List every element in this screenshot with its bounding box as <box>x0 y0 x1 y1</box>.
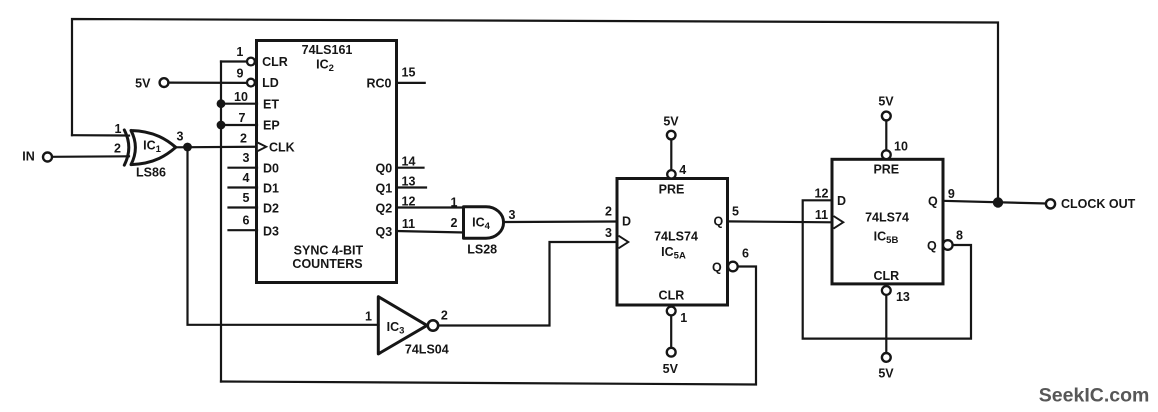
wire vertical bus CLR/ET/EP down to bottom feedback <box>220 62 222 382</box>
IC5B 74LS74 box <box>832 159 943 284</box>
svg-text:2: 2 <box>441 309 448 323</box>
node junction at XOR output <box>183 143 192 152</box>
wire CLR pin stub <box>221 60 247 62</box>
svg-text:1: 1 <box>451 196 458 210</box>
svg-text:D3: D3 <box>263 225 279 239</box>
clock triangle IC5A <box>619 236 629 249</box>
svg-text:74LS74: 74LS74 <box>865 210 909 224</box>
svg-text:1: 1 <box>680 311 687 325</box>
svg-text:1: 1 <box>365 310 372 324</box>
pin bubble LD IC2 <box>247 79 255 87</box>
svg-text:2: 2 <box>451 216 458 230</box>
wire Q2 to AND gate input 1 <box>397 206 464 208</box>
wire IC5B Q-bar feedback to D <box>803 200 971 338</box>
node IN terminal <box>43 153 52 162</box>
svg-text:10: 10 <box>234 90 248 104</box>
wire 5V to LD pin <box>169 81 247 84</box>
svg-text:7: 7 <box>239 111 246 125</box>
gate XOR IC1 body <box>131 131 176 165</box>
svg-text:SeekIC.com: SeekIC.com <box>1039 384 1150 406</box>
svg-text:PRE: PRE <box>873 162 899 176</box>
wire IC5A 5V to PRE <box>670 140 672 171</box>
svg-text:10: 10 <box>894 139 908 153</box>
svg-text:COUNTERS: COUNTERS <box>292 257 362 271</box>
node 5V terminal at LD <box>160 78 169 87</box>
svg-text:3: 3 <box>605 226 612 240</box>
svg-text:Q3: Q3 <box>376 225 393 239</box>
svg-text:CLR: CLR <box>659 289 685 303</box>
svg-text:74LS74: 74LS74 <box>654 229 698 243</box>
svg-text:PRE: PRE <box>659 183 685 197</box>
gate inverter IC3 bubble <box>428 320 438 330</box>
svg-text:12: 12 <box>402 195 416 209</box>
svg-text:Q1: Q1 <box>376 181 393 195</box>
svg-text:Q0: Q0 <box>376 161 393 175</box>
svg-text:SYNC 4-BIT: SYNC 4-BIT <box>294 244 364 258</box>
svg-text:LD: LD <box>262 76 279 90</box>
wire D1 stub <box>229 186 258 188</box>
svg-text:5: 5 <box>243 191 250 205</box>
pin bubble CLR IC5A <box>667 307 676 316</box>
gate AND IC4 body <box>464 207 504 239</box>
wire Q3 to AND gate input 2 <box>397 231 464 233</box>
node CLOCK OUT terminal <box>1046 199 1055 208</box>
svg-text:CLR: CLR <box>873 269 899 283</box>
wire XOR output junction down to inverter IC3 input <box>188 147 379 325</box>
svg-text:CLK: CLK <box>269 141 295 155</box>
IC2 74LS161 box <box>257 41 397 283</box>
wire IC5A Q to IC5B clock <box>728 220 833 223</box>
node 5V terminal IC5B bottom <box>882 353 891 362</box>
svg-text:2: 2 <box>605 205 612 219</box>
svg-text:Q2: Q2 <box>376 201 393 215</box>
pin bubble Q-bar IC5A <box>728 262 738 272</box>
wire RC0 pin 15 stub <box>397 82 425 84</box>
svg-text:74LS04: 74LS04 <box>405 343 449 357</box>
svg-text:3: 3 <box>509 208 516 222</box>
svg-text:1: 1 <box>236 45 243 59</box>
svg-text:6: 6 <box>243 214 250 228</box>
svg-text:CLOCK OUT: CLOCK OUT <box>1061 197 1136 211</box>
wire Q1 pin 13 stub <box>397 186 427 188</box>
wire IC5B 5V to PRE <box>885 120 887 150</box>
svg-text:D1: D1 <box>263 182 279 196</box>
node 5V terminal IC5A bottom <box>667 348 676 357</box>
wire top feedback from CLOCK OUT node to XOR input 1 <box>72 19 998 202</box>
clock triangle IC2 CLK <box>258 143 266 151</box>
pin bubble CLR IC2 <box>247 58 255 66</box>
svg-text:9: 9 <box>948 187 955 201</box>
gate inverter IC3 triangle <box>378 297 427 354</box>
svg-text:12: 12 <box>815 186 829 200</box>
wire XOR output to CLK of IC2 <box>175 146 257 149</box>
svg-text:Q: Q <box>927 239 937 253</box>
wire XOR input 1 horizontal <box>72 134 129 137</box>
wire D0 stub <box>229 167 258 169</box>
svg-text:CLR: CLR <box>262 55 288 69</box>
svg-text:5V: 5V <box>878 95 894 109</box>
pin bubble PRE IC5B <box>882 150 891 159</box>
svg-text:14: 14 <box>402 155 416 169</box>
svg-text:EP: EP <box>263 119 280 133</box>
pin bubble Q-bar IC5B <box>943 240 953 250</box>
wire IC5B CLR to 5V <box>885 295 887 353</box>
svg-text:74LS161: 74LS161 <box>302 43 353 57</box>
svg-text:1: 1 <box>115 122 122 136</box>
svg-text:5: 5 <box>732 205 739 219</box>
svg-text:15: 15 <box>402 66 416 80</box>
svg-text:5V: 5V <box>878 366 894 380</box>
pin bubble CLR IC5B <box>882 286 891 295</box>
wire bottom feedback from IC5A Q-bar to counter reset bus <box>221 267 756 385</box>
wire IC5B Q to CLOCK OUT <box>943 201 1046 204</box>
gate XOR IC1 input arc <box>124 130 129 165</box>
pin bubble PRE IC5A <box>667 170 675 178</box>
svg-text:ET: ET <box>263 98 279 112</box>
wire Q0 pin 14 stub <box>397 167 424 169</box>
wire D2 stub <box>229 206 258 208</box>
svg-text:5V: 5V <box>663 362 679 376</box>
svg-text:5V: 5V <box>663 114 679 128</box>
svg-text:11: 11 <box>815 208 828 222</box>
node 5V terminal IC5A top <box>667 131 676 140</box>
svg-text:13: 13 <box>402 175 416 189</box>
svg-text:6: 6 <box>742 247 749 261</box>
node junction at ET <box>217 99 226 108</box>
svg-text:IN: IN <box>22 150 35 164</box>
svg-text:3: 3 <box>177 130 184 144</box>
svg-text:13: 13 <box>896 290 910 304</box>
svg-text:D2: D2 <box>263 202 279 216</box>
svg-text:4: 4 <box>679 163 686 177</box>
svg-text:LS86: LS86 <box>136 166 166 180</box>
node junction at EP <box>217 121 226 130</box>
wire inverter output to IC5A clock <box>438 242 617 326</box>
svg-text:3: 3 <box>243 151 250 165</box>
wire AND output to IC5A D input <box>504 220 618 223</box>
wire IN to XOR input 2 <box>52 155 129 158</box>
wire ET pin stub <box>221 103 257 105</box>
clock triangle IC5B <box>834 216 844 229</box>
svg-text:D: D <box>837 194 846 208</box>
wire IC5A CLR to 5V <box>670 316 672 348</box>
svg-text:9: 9 <box>237 67 244 81</box>
svg-text:Q: Q <box>928 194 938 208</box>
svg-text:D: D <box>622 214 631 228</box>
wire D3 stub <box>229 229 258 231</box>
svg-text:LS28: LS28 <box>467 243 497 257</box>
svg-text:11: 11 <box>402 217 415 231</box>
svg-text:4: 4 <box>243 171 250 185</box>
svg-text:2: 2 <box>240 131 247 145</box>
svg-text:Q: Q <box>714 214 724 228</box>
wire EP pin stub <box>221 124 257 126</box>
svg-text:5V: 5V <box>135 77 151 91</box>
node 5V terminal IC5B top <box>882 112 891 121</box>
IC5A 74LS74 box <box>617 179 728 306</box>
svg-text:2: 2 <box>114 142 121 156</box>
svg-text:RC0: RC0 <box>367 76 392 90</box>
svg-text:8: 8 <box>956 229 963 243</box>
svg-text:Q: Q <box>712 260 722 274</box>
node junction at Q9 / clock out <box>993 197 1003 207</box>
svg-text:D0: D0 <box>263 162 279 176</box>
